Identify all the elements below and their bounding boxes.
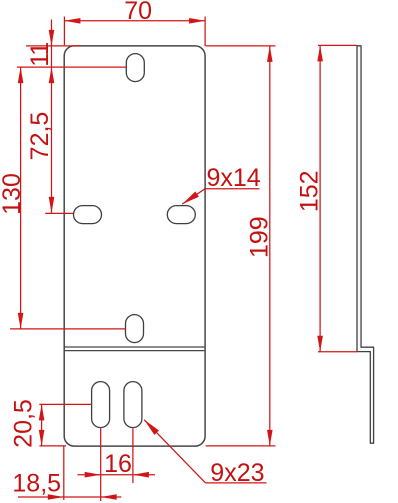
dimension 199 arrow down	[267, 430, 273, 446]
dimension 20,5 arrow up	[39, 404, 45, 420]
dimension 20,5 arrow down	[39, 430, 45, 446]
slot middle right 9x14	[167, 206, 195, 224]
side view Z profile	[357, 46, 374, 443]
dimension 18,5 line	[18, 496, 121, 498]
extension line 152 bottom	[318, 351, 357, 353]
dimension 11/72,5 arrow up at slot line	[49, 67, 55, 83]
svg-text:11: 11	[26, 43, 54, 67]
label 9x23 shelf	[206, 482, 267, 484]
extension line bottom slot left center	[100, 428, 102, 501]
label 9x23 leader	[144, 420, 205, 483]
svg-text:20,5: 20,5	[10, 399, 38, 448]
extension line 152 top	[318, 44, 357, 46]
dimension 152 arrow down	[317, 336, 323, 352]
svg-text:16: 16	[104, 450, 132, 478]
dimension 152 arrow up	[317, 45, 323, 61]
dimension 11 and 72,5 shared vertical line	[51, 20, 53, 213]
extension line 199 bottom	[206, 445, 276, 447]
dimension 72,5 arrow down	[49, 197, 55, 213]
extension line bottom slot right center	[132, 428, 134, 483]
dimension 130 line	[20, 67, 22, 329]
dimension 18,5 arrow left-pointing	[101, 494, 117, 500]
dimension 199 line	[269, 46, 271, 446]
bend line lower	[65, 350, 205, 352]
dimension 18,5 arrow right-pointing	[48, 494, 64, 500]
dimension 130 arrow up	[18, 67, 24, 83]
dimension 16 arrow left-pointing	[133, 472, 149, 478]
svg-text:18,5: 18,5	[12, 470, 61, 498]
extension line top edge left	[26, 45, 80, 47]
svg-text:72,5: 72,5	[26, 112, 54, 161]
label 9x23 arrowhead	[144, 420, 159, 435]
slot bottom right 9x23	[124, 382, 142, 428]
svg-text:152: 152	[295, 170, 323, 212]
extension line plate left edge down	[63, 447, 65, 501]
dimension 11 arrow down at top edge	[49, 30, 55, 46]
slot middle left 9x14	[74, 206, 102, 224]
label 9x14 leader	[182, 189, 205, 204]
slot lower center 9x14	[126, 315, 144, 343]
dimension 70 arrow left	[64, 18, 80, 24]
bend line upper	[65, 346, 205, 348]
dimension 20,5 slot center line	[39, 403, 91, 405]
dimension 16 line	[78, 474, 156, 476]
svg-text:199: 199	[246, 216, 274, 258]
extension line plate right edge up	[204, 17, 206, 46]
svg-text:130: 130	[0, 173, 26, 215]
dimension 152 line	[319, 45, 321, 351]
dimension 130 arrow down	[18, 313, 24, 329]
extension line bottom edge left	[39, 445, 66, 447]
extension line middle slot center	[45, 212, 73, 214]
dimension 70 line	[64, 20, 205, 22]
svg-text:70: 70	[124, 0, 152, 25]
dimension 199 arrow up	[267, 46, 273, 62]
slot bottom left 9x23	[92, 382, 110, 428]
plate front view outline	[64, 46, 205, 446]
svg-text:9x14: 9x14	[207, 164, 261, 192]
dimension 70 arrow right	[189, 18, 205, 24]
extension line plate left edge up	[63, 17, 65, 46]
slot top 9x14	[126, 54, 144, 82]
extension line lower slot center	[10, 328, 125, 330]
label 9x14 arrowhead	[182, 191, 199, 204]
dimension 20,5 line	[41, 404, 43, 446]
extension line 199 top	[206, 45, 276, 47]
extension line top slot center	[17, 66, 126, 68]
dimension 16 arrow right-pointing	[85, 472, 101, 478]
label 9x14 shelf	[205, 188, 260, 190]
